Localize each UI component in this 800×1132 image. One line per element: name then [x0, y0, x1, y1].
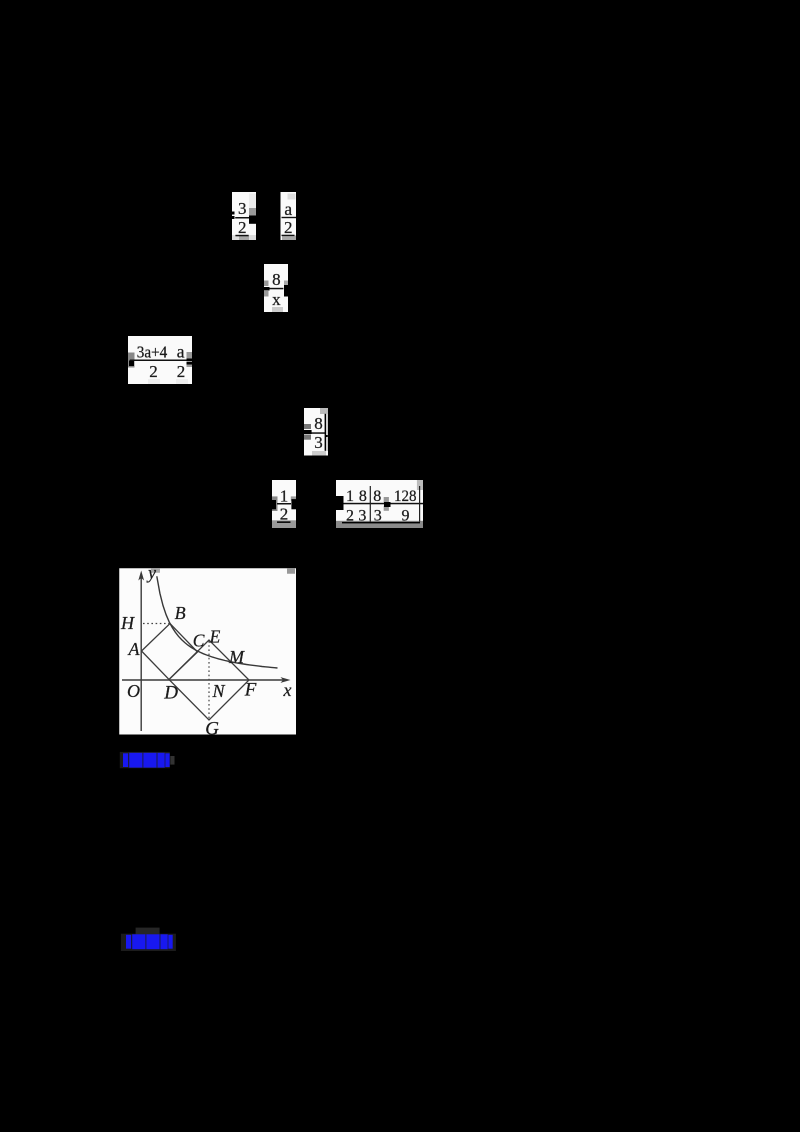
- square ABCD: [142, 624, 198, 680]
- svg-text:A: A: [128, 639, 141, 659]
- blue heading 2: [126, 934, 173, 949]
- svg-text:128: 128: [394, 488, 417, 505]
- svg-text:N: N: [212, 681, 226, 701]
- svg-text:F: F: [244, 679, 257, 700]
- equation box 8/x: [259, 264, 290, 312]
- svg-text:E: E: [209, 626, 221, 646]
- svg-text:a: a: [284, 199, 292, 219]
- svg-text:1: 1: [346, 488, 354, 505]
- svg-text:1: 1: [280, 486, 289, 505]
- svg-text:2: 2: [177, 362, 186, 381]
- equation box 1/2: [272, 480, 297, 528]
- svg-text:8: 8: [272, 270, 281, 289]
- svg-text:3: 3: [238, 199, 247, 218]
- dotted HB: [143, 623, 169, 625]
- equation box 8/3: [302, 408, 328, 456]
- x-axis: [122, 677, 291, 683]
- blue heading 2 halo: [121, 934, 176, 951]
- svg-text:3: 3: [314, 433, 323, 452]
- dotted EG: [208, 641, 210, 719]
- hyperbola curve: [157, 576, 278, 668]
- svg-text:a: a: [177, 342, 185, 362]
- svg-text:D: D: [163, 682, 178, 703]
- equation box (3a+4)/2 a/2 =: [128, 336, 199, 384]
- blue heading 1: [123, 753, 175, 768]
- svg-text:2: 2: [280, 504, 289, 523]
- square DEFG: [169, 640, 249, 720]
- svg-text:x: x: [272, 290, 281, 309]
- svg-text:2: 2: [149, 362, 158, 381]
- svg-text:O: O: [127, 681, 140, 701]
- blue heading 1 halo: [120, 752, 170, 768]
- svg-text:y: y: [146, 563, 156, 583]
- equation box a/2: [281, 192, 297, 240]
- svg-text:x: x: [283, 680, 292, 700]
- svg-text:C: C: [193, 631, 205, 651]
- svg-text:M: M: [228, 647, 245, 667]
- svg-text:H: H: [120, 613, 135, 633]
- svg-text:8: 8: [359, 488, 367, 505]
- svg-text:3a+4: 3a+4: [137, 342, 168, 361]
- equation box 3/2: [230, 192, 257, 240]
- y-axis: [138, 571, 144, 732]
- svg-text:G: G: [205, 718, 219, 739]
- svg-text:8: 8: [373, 488, 381, 505]
- svg-text:B: B: [175, 603, 186, 623]
- svg-text:8: 8: [314, 414, 323, 433]
- diagram white box: [119, 568, 296, 734]
- svg-text:2: 2: [284, 218, 293, 237]
- svg-text:2: 2: [238, 218, 247, 237]
- equation box 1 8|8 = 128 / 2 3|3 9: [332, 480, 426, 528]
